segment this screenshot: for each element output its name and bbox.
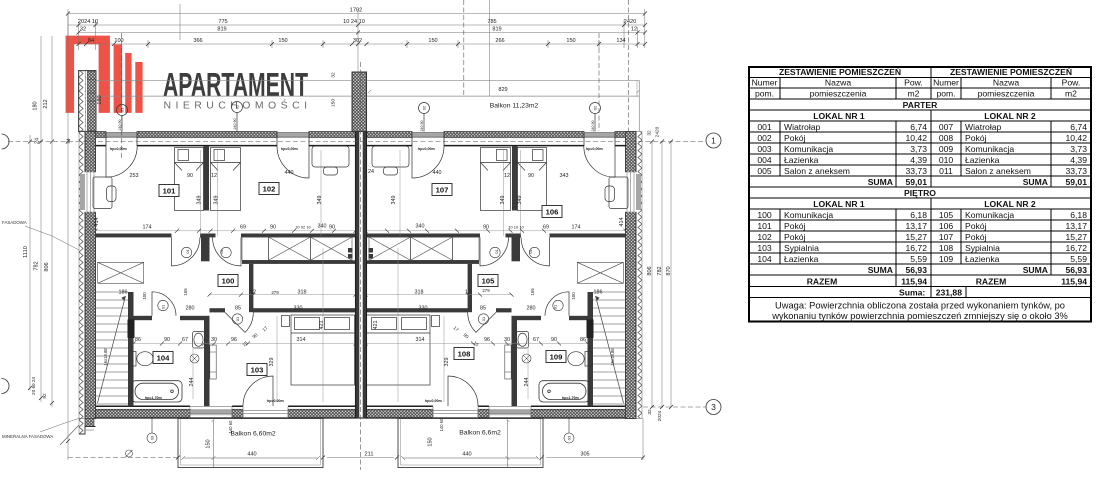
summary rows xyxy=(807,177,1087,297)
svg-text:100: 100 xyxy=(757,210,772,220)
svg-text:004: 004 xyxy=(757,155,772,165)
svg-text:165: 165 xyxy=(530,288,535,296)
svg-text:LOKAL NR 1: LOKAL NR 1 xyxy=(813,111,865,121)
rotated interior dims xyxy=(94,196,625,387)
svg-text:Suma:: Suma: xyxy=(899,287,925,297)
svg-text:150: 150 xyxy=(428,38,437,44)
svg-text:pom.: pom. xyxy=(936,88,955,98)
svg-text:MINERALNA FASADOWA: MINERALNA FASADOWA xyxy=(2,434,53,439)
window circle texts xyxy=(120,104,598,440)
uwaga note xyxy=(771,301,1068,322)
svg-text:134: 134 xyxy=(616,38,625,44)
svg-text:103: 103 xyxy=(251,366,264,375)
svg-text:LOKAL NR 2: LOKAL NR 2 xyxy=(984,199,1036,209)
svg-text:244: 244 xyxy=(189,378,195,387)
svg-text:PIĘTRO: PIĘTRO xyxy=(904,188,936,198)
axis circle left bottom xyxy=(2,379,10,394)
svg-text:LOKAL NR 2: LOKAL NR 2 xyxy=(984,111,1036,121)
svg-text:LOKAL NR 1: LOKAL NR 1 xyxy=(813,199,865,209)
svg-text:165: 165 xyxy=(183,288,188,296)
svg-text:02: 02 xyxy=(593,105,598,110)
apartment unit 1 geometry xyxy=(79,132,358,469)
svg-text:6,18: 6,18 xyxy=(910,210,927,220)
svg-text:hp=0,00m: hp=0,00m xyxy=(110,147,127,151)
svg-text:10 10 10: 10 10 10 xyxy=(508,225,524,230)
svg-text:Sypialnia: Sypialnia xyxy=(784,243,819,253)
svg-text:02: 02 xyxy=(235,104,240,109)
svg-text:3: 3 xyxy=(711,402,716,412)
svg-text:32: 32 xyxy=(80,27,86,33)
bottom dimension texts xyxy=(206,418,590,458)
svg-text:Salon z aneksem: Salon z aneksem xyxy=(965,166,1031,176)
svg-text:24: 24 xyxy=(66,138,71,144)
svg-text:6,18: 6,18 xyxy=(1070,210,1087,220)
svg-text:90: 90 xyxy=(329,225,335,231)
svg-text:01: 01 xyxy=(481,316,486,321)
svg-text:775: 775 xyxy=(218,19,227,25)
svg-text:01: 01 xyxy=(553,304,558,309)
svg-text:03: 03 xyxy=(150,435,155,440)
bottom dimension lines xyxy=(176,418,645,460)
svg-text:314: 314 xyxy=(416,337,425,343)
svg-text:314: 314 xyxy=(297,337,306,343)
svg-text:349: 349 xyxy=(214,196,220,205)
svg-text:86: 86 xyxy=(135,337,141,343)
svg-text:003: 003 xyxy=(757,144,772,154)
apartment unit 2 geometry mirrored xyxy=(364,132,643,469)
svg-text:16,72: 16,72 xyxy=(1065,243,1087,253)
svg-text:ZESTAWIENIE POMIESZCZEŃ: ZESTAWIENIE POMIESZCZEŃ xyxy=(950,67,1072,77)
svg-text:829: 829 xyxy=(498,87,507,93)
svg-text:414: 414 xyxy=(94,218,100,227)
svg-text:150: 150 xyxy=(428,437,434,446)
svg-text:wykonaniu tynków powierzchnia: wykonaniu tynków powierzchnia pomieszcze… xyxy=(771,311,1068,321)
svg-text:150: 150 xyxy=(278,38,287,44)
svg-text:3,73: 3,73 xyxy=(910,144,927,154)
svg-text:Salon z aneksem: Salon z aneksem xyxy=(784,166,850,176)
svg-text:Pokój: Pokój xyxy=(784,133,806,143)
svg-text:318: 318 xyxy=(415,290,424,296)
svg-text:SUMA: SUMA xyxy=(868,177,893,187)
svg-text:Nazwa: Nazwa xyxy=(825,77,851,87)
svg-text:421: 421 xyxy=(319,321,325,330)
svg-text:414: 414 xyxy=(619,218,625,227)
svg-text:244: 244 xyxy=(524,378,530,387)
svg-text:107: 107 xyxy=(436,186,449,195)
svg-text:107: 107 xyxy=(939,232,954,242)
svg-text:1110: 1110 xyxy=(23,246,29,258)
svg-text:12: 12 xyxy=(211,173,217,179)
svg-text:69: 69 xyxy=(543,225,549,231)
svg-text:FASADOWA: FASADOWA xyxy=(2,220,27,225)
svg-text:440: 440 xyxy=(247,452,256,458)
svg-text:03: 03 xyxy=(567,435,572,440)
svg-text:16,72: 16,72 xyxy=(905,243,927,253)
svg-text:Łazienka: Łazienka xyxy=(784,155,819,165)
svg-text:101: 101 xyxy=(757,221,772,231)
svg-text:Balkon 6,6m2: Balkon 6,6m2 xyxy=(459,430,501,437)
svg-text:115,94: 115,94 xyxy=(901,276,927,286)
svg-text:24: 24 xyxy=(368,169,374,175)
svg-text:Pow.: Pow. xyxy=(1062,77,1081,87)
axis circle 3 xyxy=(706,400,721,415)
svg-text:96: 96 xyxy=(231,337,237,343)
svg-text:84: 84 xyxy=(88,38,94,44)
svg-text:33,73: 33,73 xyxy=(1065,166,1087,176)
svg-text:366: 366 xyxy=(193,38,202,44)
svg-text:hp=1,70m: hp=1,70m xyxy=(562,396,579,400)
svg-text:6,74: 6,74 xyxy=(1070,122,1087,132)
right dimension lines xyxy=(650,140,673,410)
svg-text:305: 305 xyxy=(580,452,589,458)
svg-text:330: 330 xyxy=(294,306,303,312)
svg-text:90: 90 xyxy=(551,337,557,343)
svg-text:92: 92 xyxy=(42,393,47,399)
svg-text:59,01: 59,01 xyxy=(1065,177,1087,187)
svg-text:212: 212 xyxy=(43,99,49,108)
svg-text:96: 96 xyxy=(484,337,490,343)
svg-text:01: 01 xyxy=(219,249,224,254)
svg-text:007: 007 xyxy=(939,122,954,132)
terrace edge lines top xyxy=(96,80,639,131)
svg-text:115,94: 115,94 xyxy=(1061,276,1087,286)
svg-text:hp=0,00m: hp=0,00m xyxy=(586,147,603,151)
svg-text:Pokój: Pokój xyxy=(965,133,987,143)
svg-text:90: 90 xyxy=(187,173,193,179)
svg-text:33,73: 33,73 xyxy=(905,166,927,176)
svg-text:150: 150 xyxy=(331,99,337,107)
svg-text:186: 186 xyxy=(119,290,128,296)
svg-text:782: 782 xyxy=(34,261,40,270)
svg-text:5,59: 5,59 xyxy=(1070,254,1087,264)
svg-text:24: 24 xyxy=(35,138,41,144)
svg-text:102: 102 xyxy=(263,185,276,194)
svg-text:15,27: 15,27 xyxy=(905,232,927,242)
balkon labels xyxy=(230,87,538,438)
svg-text:Balkon 11,23m2: Balkon 11,23m2 xyxy=(490,103,539,110)
svg-text:59,01: 59,01 xyxy=(905,177,927,187)
svg-text:105: 105 xyxy=(482,277,495,286)
svg-text:01: 01 xyxy=(161,304,166,309)
svg-text:Nazwa: Nazwa xyxy=(993,77,1019,87)
svg-text:Pokój: Pokój xyxy=(965,232,987,242)
svg-text:69: 69 xyxy=(240,225,246,231)
svg-text:1: 1 xyxy=(711,136,716,146)
svg-text:10 02 10: 10 02 10 xyxy=(295,225,311,230)
table vertical lines xyxy=(930,67,932,298)
svg-text:108: 108 xyxy=(458,350,471,359)
svg-text:hp=1,70m: hp=1,70m xyxy=(145,396,162,400)
svg-text:30: 30 xyxy=(211,337,217,343)
svg-text:318: 318 xyxy=(298,290,307,296)
svg-text:6,74: 6,74 xyxy=(910,122,927,132)
svg-text:hp=0,00m: hp=0,00m xyxy=(418,147,435,151)
svg-text:Pow.: Pow. xyxy=(904,77,923,87)
svg-text:4,39: 4,39 xyxy=(1070,155,1087,165)
svg-text:186: 186 xyxy=(594,290,603,296)
svg-text:870: 870 xyxy=(666,266,672,275)
svg-text:002: 002 xyxy=(757,133,772,143)
svg-text:hp=0,00m: hp=0,00m xyxy=(425,399,442,403)
svg-text:343: 343 xyxy=(560,173,569,179)
svg-text:2024 10: 2024 10 xyxy=(78,19,98,25)
room number boxes xyxy=(153,183,566,376)
axis circle left top xyxy=(2,134,10,149)
svg-text:67: 67 xyxy=(533,337,539,343)
svg-text:349: 349 xyxy=(317,196,323,205)
svg-text:pom.: pom. xyxy=(755,88,774,98)
left dimension texts rotated xyxy=(23,72,337,399)
svg-text:32: 32 xyxy=(647,409,653,415)
svg-text:174: 174 xyxy=(143,225,152,231)
svg-text:90: 90 xyxy=(164,337,170,343)
window marker circles top xyxy=(117,102,601,132)
svg-text:Pokój: Pokój xyxy=(965,221,987,231)
svg-text:m2: m2 xyxy=(1065,88,1077,98)
logo apartament nieruchomosci xyxy=(66,36,309,113)
dim 829 balcony xyxy=(368,90,640,93)
svg-text:105: 105 xyxy=(939,210,954,220)
svg-text:302: 302 xyxy=(353,38,362,44)
svg-text:Numer: Numer xyxy=(933,77,959,87)
svg-text:819: 819 xyxy=(492,27,501,33)
svg-text:SUMA: SUMA xyxy=(1023,265,1048,275)
svg-text:008: 008 xyxy=(939,133,954,143)
svg-text:2420: 2420 xyxy=(624,19,636,25)
svg-text:340: 340 xyxy=(318,224,327,230)
svg-text:279: 279 xyxy=(271,290,279,295)
svg-text:2420: 2420 xyxy=(655,126,661,137)
svg-text:86: 86 xyxy=(580,337,586,343)
svg-text:819: 819 xyxy=(217,27,226,33)
svg-text:806: 806 xyxy=(44,262,50,271)
svg-text:RAZEM: RAZEM xyxy=(807,276,838,286)
svg-text:329: 329 xyxy=(444,358,450,367)
svg-text:2024: 2024 xyxy=(657,410,663,421)
bottom-left wall corner extension xyxy=(60,419,96,446)
svg-text:349: 349 xyxy=(391,196,397,205)
room schedule table xyxy=(749,67,1091,322)
svg-text:240 90: 240 90 xyxy=(591,121,595,132)
table header texts xyxy=(779,67,1072,209)
svg-text:56,93: 56,93 xyxy=(1065,265,1087,275)
svg-text:001: 001 xyxy=(757,122,772,132)
svg-text:01: 01 xyxy=(528,249,533,254)
svg-text:Łazienka: Łazienka xyxy=(965,155,1000,165)
svg-text:009: 009 xyxy=(939,144,954,154)
svg-text:01: 01 xyxy=(120,107,125,112)
small axis symbol bottom xyxy=(126,450,133,457)
svg-text:104: 104 xyxy=(757,254,772,264)
svg-text:349: 349 xyxy=(500,196,506,205)
svg-text:005: 005 xyxy=(757,166,772,176)
svg-text:PARTER: PARTER xyxy=(903,100,938,110)
svg-text:APARTAMENT: APARTAMENT xyxy=(163,67,308,104)
svg-text:Pokój: Pokój xyxy=(784,221,806,231)
svg-text:SUMA: SUMA xyxy=(1023,177,1048,187)
svg-text:16x18,88: 16x18,88 xyxy=(610,348,615,366)
svg-text:280: 280 xyxy=(527,306,536,312)
svg-text:Numer: Numer xyxy=(752,77,778,87)
interior dimension texts xyxy=(119,169,603,343)
svg-text:85: 85 xyxy=(235,306,241,312)
svg-text:329: 329 xyxy=(269,358,275,367)
svg-text:180: 180 xyxy=(97,95,103,104)
table horizontal lines xyxy=(749,78,1091,298)
svg-text:Balkon 6,60m2: Balkon 6,60m2 xyxy=(230,431,276,438)
parter rows lokal 1 xyxy=(757,122,953,264)
svg-text:30: 30 xyxy=(504,337,510,343)
party wall center xyxy=(356,132,367,419)
svg-text:174: 174 xyxy=(572,225,581,231)
svg-text:Łazienka: Łazienka xyxy=(965,254,1000,264)
svg-text:440: 440 xyxy=(433,170,442,176)
svg-text:330: 330 xyxy=(419,306,428,312)
svg-text:5,59: 5,59 xyxy=(910,254,927,264)
right dimension texts rotated xyxy=(647,126,673,421)
svg-text:440: 440 xyxy=(285,170,294,176)
svg-text:108: 108 xyxy=(939,243,954,253)
svg-text:13,17: 13,17 xyxy=(905,221,927,231)
svg-text:90: 90 xyxy=(528,173,534,179)
svg-text:782: 782 xyxy=(657,266,663,275)
svg-text:3,73: 3,73 xyxy=(1070,144,1087,154)
svg-text:100: 100 xyxy=(114,38,123,44)
svg-text:12: 12 xyxy=(250,290,256,296)
axis circle 1 xyxy=(706,133,721,148)
svg-text:011: 011 xyxy=(939,166,953,176)
svg-text:12: 12 xyxy=(631,27,637,33)
svg-text:Pokój: Pokój xyxy=(784,232,806,242)
svg-text:440: 440 xyxy=(462,452,471,458)
svg-text:100: 100 xyxy=(222,277,235,286)
svg-text:180: 180 xyxy=(33,101,39,110)
fasadowa labels xyxy=(2,220,80,439)
svg-text:100: 100 xyxy=(142,292,147,300)
svg-text:340: 340 xyxy=(416,224,425,230)
svg-text:280: 280 xyxy=(186,306,195,312)
svg-text:253: 253 xyxy=(130,173,139,179)
extent verticals xyxy=(68,4,645,75)
svg-text:150: 150 xyxy=(206,439,212,448)
svg-text:16x18,88: 16x18,88 xyxy=(103,348,108,366)
svg-text:785: 785 xyxy=(487,19,496,25)
svg-text:1702: 1702 xyxy=(350,8,362,14)
svg-text:32: 32 xyxy=(331,72,337,78)
hp labels xyxy=(110,147,603,403)
svg-text:150: 150 xyxy=(566,38,575,44)
svg-text:266: 266 xyxy=(495,38,504,44)
svg-text:hp=0,00m: hp=0,00m xyxy=(267,399,284,403)
svg-text:140 60: 140 60 xyxy=(439,418,444,431)
svg-text:90: 90 xyxy=(270,225,276,231)
svg-text:231,88: 231,88 xyxy=(936,287,963,297)
svg-text:32: 32 xyxy=(647,130,653,136)
svg-text:pomieszczenia: pomieszczenia xyxy=(978,88,1035,98)
svg-text:67: 67 xyxy=(182,337,188,343)
svg-text:102: 102 xyxy=(757,232,772,242)
svg-text:101: 101 xyxy=(163,187,176,196)
svg-text:279: 279 xyxy=(482,288,490,293)
svg-text:Komunikacja: Komunikacja xyxy=(784,144,833,154)
logo red bars xyxy=(66,36,110,113)
svg-text:421: 421 xyxy=(373,321,379,330)
svg-text:Komunikacja: Komunikacja xyxy=(784,210,833,220)
svg-text:01: 01 xyxy=(494,249,499,254)
svg-text:240 90: 240 90 xyxy=(233,119,237,130)
svg-text:ZESTAWIENIE POMIESZCZEŃ: ZESTAWIENIE POMIESZCZEŃ xyxy=(779,67,901,77)
svg-text:010: 010 xyxy=(939,155,954,165)
svg-text:100: 100 xyxy=(571,292,576,300)
dashed axis lines xyxy=(8,0,706,470)
column headers xyxy=(752,77,1081,98)
svg-text:10,42: 10,42 xyxy=(905,133,927,143)
top dimension texts xyxy=(78,8,637,45)
svg-text:211: 211 xyxy=(365,452,374,458)
svg-text:240 90: 240 90 xyxy=(118,120,122,131)
entrance porch wall top-left xyxy=(79,71,97,132)
table outer border xyxy=(749,67,1091,322)
chimney stub above top wall xyxy=(352,72,367,132)
svg-text:20 60 24: 20 60 24 xyxy=(31,377,36,395)
tick slashes xyxy=(66,12,647,47)
svg-text:4,39: 4,39 xyxy=(910,155,927,165)
svg-text:12: 12 xyxy=(504,173,510,179)
svg-text:Komunikacja: Komunikacja xyxy=(965,210,1014,220)
svg-text:Wiatrołap: Wiatrołap xyxy=(965,122,1002,132)
svg-text:10,42: 10,42 xyxy=(1065,133,1087,143)
svg-text:15,27: 15,27 xyxy=(1065,232,1087,242)
svg-text:90: 90 xyxy=(483,225,489,231)
svg-text:m2: m2 xyxy=(908,88,920,98)
top dimension lines xyxy=(66,0,647,96)
svg-text:85: 85 xyxy=(480,306,486,312)
svg-text:01: 01 xyxy=(235,316,240,321)
svg-text:806: 806 xyxy=(647,266,653,275)
svg-text:104: 104 xyxy=(157,354,170,363)
svg-text:349: 349 xyxy=(517,196,523,205)
svg-text:106: 106 xyxy=(939,221,954,231)
svg-text:13,17: 13,17 xyxy=(1065,221,1087,231)
svg-text:01: 01 xyxy=(185,249,190,254)
left dimension lines xyxy=(28,14,70,461)
svg-text:Komunikacja: Komunikacja xyxy=(965,144,1014,154)
svg-text:240 90: 240 90 xyxy=(420,121,424,132)
svg-text:RAZEM: RAZEM xyxy=(976,276,1007,286)
svg-text:pomieszczenia: pomieszczenia xyxy=(810,88,867,98)
svg-text:02: 02 xyxy=(422,105,427,110)
svg-text:10 24 10: 10 24 10 xyxy=(343,19,365,25)
svg-text:109: 109 xyxy=(939,254,954,264)
svg-text:Sypialnia: Sypialnia xyxy=(965,243,1000,253)
svg-text:Łazienka: Łazienka xyxy=(784,254,819,264)
svg-text:109: 109 xyxy=(550,353,563,362)
svg-text:56,93: 56,93 xyxy=(905,265,927,275)
svg-text:106: 106 xyxy=(546,208,559,217)
svg-text:Uwaga: Powierzchnia obliczona: Uwaga: Powierzchnia obliczona została pr… xyxy=(775,301,1065,311)
svg-text:Wiatrołap: Wiatrołap xyxy=(784,122,821,132)
svg-text:SUMA: SUMA xyxy=(868,265,893,275)
svg-text:103: 103 xyxy=(757,243,772,253)
svg-text:12: 12 xyxy=(465,290,471,296)
svg-text:349: 349 xyxy=(197,196,203,205)
svg-text:hp=0,00m: hp=0,00m xyxy=(281,147,298,151)
